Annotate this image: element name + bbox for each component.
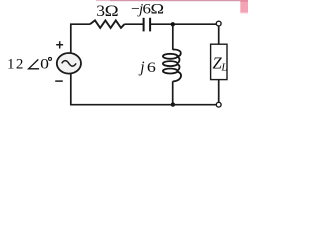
page border pink corner block — [240, 0, 248, 13]
capacitor C -j6ohm plates — [143, 18, 145, 32]
wire inductor bottom lead — [172, 81, 174, 104]
plus sign — [56, 41, 63, 48]
wire top-left corner (source to resistor) — [71, 24, 90, 53]
resistor R 3ohm zigzag — [90, 20, 125, 28]
svg-text:6: 6 — [147, 58, 156, 75]
svg-text:j: j — [138, 59, 144, 76]
inductor L j6 coil — [163, 50, 181, 82]
wire resistor to capacitor — [124, 23, 143, 25]
svg-text:Ω: Ω — [105, 2, 119, 19]
terminal b open circle bottom — [216, 102, 221, 107]
sine wave — [62, 61, 76, 67]
terminal a open circle top — [216, 21, 221, 26]
svg-text:0: 0 — [40, 55, 49, 72]
wire terminal a to ZL box — [218, 26, 220, 44]
minus sign — [55, 80, 63, 82]
svg-text:L: L — [220, 62, 227, 74]
load ZL box — [211, 44, 227, 79]
wire ZL box to terminal b — [218, 80, 220, 103]
svg-text:Ω: Ω — [151, 0, 165, 17]
wire source bottom to bottom-left corner — [71, 73, 217, 104]
page border pink top line — [96, 0, 110, 1]
voltage source VS circle — [57, 53, 81, 74]
node B junction dot bottom — [171, 102, 175, 106]
wire inductor top lead — [172, 25, 174, 50]
angle symbol — [29, 59, 39, 68]
node A junction dot top — [171, 22, 175, 26]
svg-text:12: 12 — [7, 57, 25, 73]
degree circle — [49, 57, 52, 60]
wire capacitor to terminal a — [151, 23, 217, 25]
